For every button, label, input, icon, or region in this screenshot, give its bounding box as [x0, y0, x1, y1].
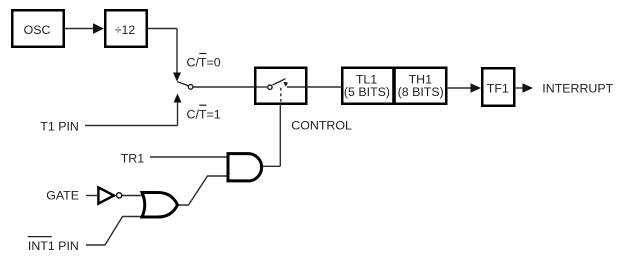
svg-text:T1 PIN: T1 PIN [40, 119, 79, 133]
svg-text:OSC: OSC [24, 23, 51, 37]
svg-text:GATE: GATE [46, 189, 79, 203]
svg-text:INTERRUPT: INTERRUPT [542, 81, 613, 95]
svg-text:(8 BITS): (8 BITS) [398, 85, 444, 99]
svg-text:TR1: TR1 [121, 151, 145, 165]
svg-text:C/T=1: C/T=1 [187, 108, 221, 122]
svg-text:INT1 PIN: INT1 PIN [28, 239, 79, 253]
svg-text:÷12: ÷12 [115, 23, 136, 37]
svg-text:(5 BITS): (5 BITS) [344, 85, 390, 99]
svg-text:TF1: TF1 [487, 82, 509, 96]
svg-text:C/T=0: C/T=0 [187, 55, 221, 69]
svg-text:CONTROL: CONTROL [291, 119, 352, 133]
